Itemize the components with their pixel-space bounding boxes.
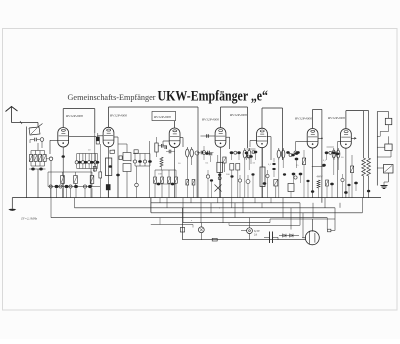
svg-text:2A: 2A: [254, 233, 257, 236]
svg-text:Gemeinschafts-Empfänger: Gemeinschafts-Empfänger: [68, 93, 156, 102]
svg-text:RV12P4000: RV12P4000: [109, 114, 127, 118]
svg-text:RV12P4000: RV12P4000: [201, 117, 219, 121]
svg-text:RV12P4000: RV12P4000: [229, 113, 247, 117]
svg-text:RV12P4000: RV12P4000: [65, 114, 83, 118]
svg-text:RV12P4000: RV12P4000: [153, 115, 171, 119]
svg-text:RV12P4000: RV12P4000: [294, 117, 312, 121]
svg-text:4WW: 4WW: [317, 176, 324, 179]
svg-text:RV12P4000: RV12P4000: [327, 116, 345, 120]
svg-text:UKW-Empfänger „e“: UKW-Empfänger „e“: [158, 88, 269, 104]
